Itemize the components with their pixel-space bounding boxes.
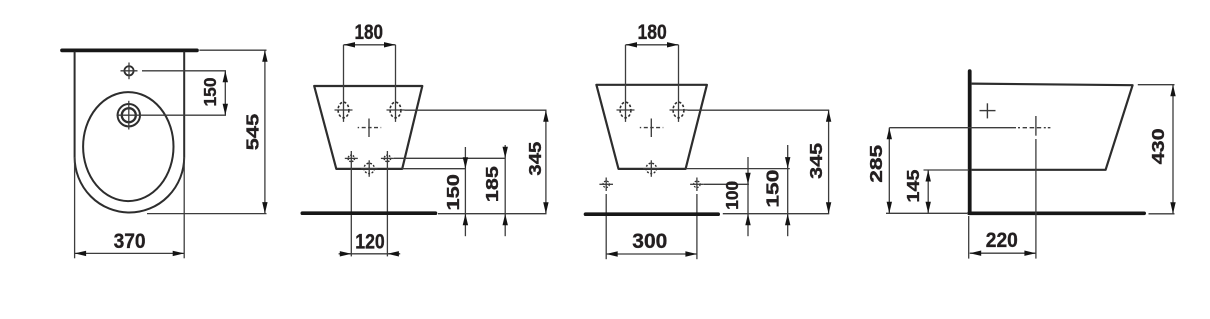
svg-text:150: 150: [762, 169, 782, 207]
svg-text:150: 150: [443, 174, 463, 211]
svg-text:345: 345: [525, 141, 545, 175]
svg-text:150: 150: [200, 77, 220, 106]
svg-text:220: 220: [986, 229, 1018, 252]
svg-text:180: 180: [355, 21, 384, 44]
svg-text:545: 545: [242, 113, 262, 150]
svg-text:370: 370: [114, 230, 146, 253]
svg-text:345: 345: [806, 143, 826, 179]
svg-text:300: 300: [632, 230, 667, 253]
svg-text:145: 145: [903, 169, 923, 202]
svg-text:100: 100: [722, 181, 742, 210]
svg-text:285: 285: [866, 144, 886, 182]
svg-text:185: 185: [482, 166, 502, 202]
svg-text:120: 120: [355, 231, 385, 254]
svg-text:430: 430: [1148, 128, 1168, 164]
svg-text:180: 180: [637, 21, 666, 44]
